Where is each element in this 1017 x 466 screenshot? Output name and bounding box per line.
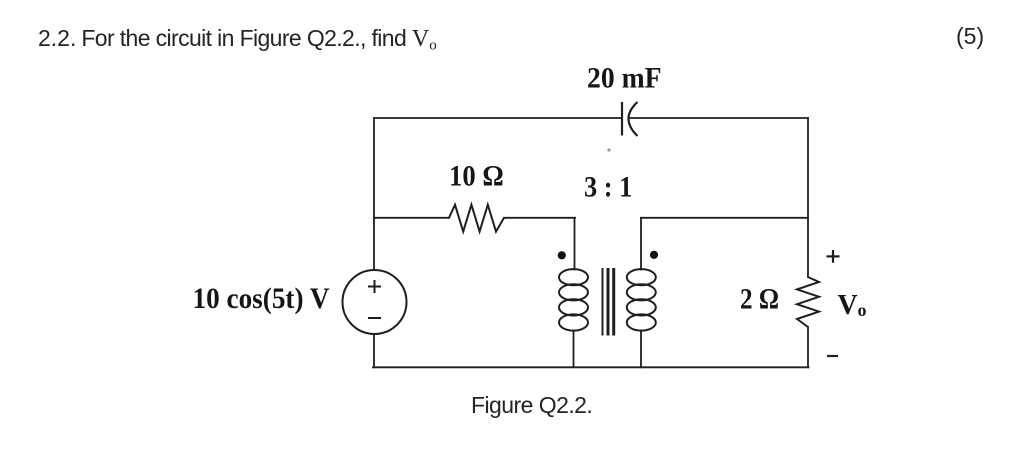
- wire secondary top vertical: [640, 218, 642, 270]
- svg-text:10 Ω: 10 Ω: [449, 160, 504, 193]
- wire left vertical lower: [373, 334, 375, 367]
- resistor R2 2 ohm vertical zigzag: [797, 277, 819, 327]
- voltage source minus sign: [368, 317, 381, 319]
- faint scan speck: [607, 148, 610, 151]
- dot secondary polarity: [650, 251, 658, 259]
- voltage source VS circle: [343, 270, 407, 334]
- problem statement text: [38, 25, 437, 59]
- svg-text:V: V: [838, 290, 858, 321]
- wire right vertical upper: [807, 118, 809, 277]
- inductor L2 secondary coil: [627, 269, 656, 331]
- svg-text:2 Ω: 2 Ω: [740, 282, 779, 315]
- wire top-right horizontal: [629, 117, 808, 119]
- wire bottom horizontal: [373, 366, 809, 368]
- dot primary polarity: [558, 251, 566, 259]
- transformer core bars: [603, 268, 614, 336]
- minus sign output: [827, 355, 838, 357]
- wire top-left horizontal: [374, 117, 622, 119]
- plus sign output: [827, 250, 840, 263]
- wire primary top vertical: [574, 218, 576, 270]
- svg-text:20 mF: 20 mF: [587, 62, 662, 95]
- svg-text:10 cos(5t) V: 10 cos(5t) V: [193, 282, 330, 315]
- svg-text:o: o: [858, 300, 867, 320]
- marks (5): [956, 23, 984, 50]
- capacitor C1 curved plate: [629, 102, 638, 136]
- wire secondary bottom vertical: [640, 331, 642, 368]
- wire resistor R1 to primary: [504, 217, 575, 219]
- resistor 10 ohm zigzag: [449, 205, 504, 232]
- svg-text:3 : 1: 3 : 1: [584, 171, 632, 204]
- wire left vertical upper: [373, 118, 375, 270]
- wire right vertical lower: [807, 327, 809, 367]
- wire middle-right horizontal: [641, 217, 808, 219]
- capacitor C1 left plate: [621, 102, 623, 136]
- figure caption: [471, 392, 592, 419]
- inductor L1 primary coil: [559, 269, 588, 331]
- wire middle-left horizontal: [374, 217, 449, 219]
- voltage source plus sign: [368, 280, 381, 293]
- wire primary bottom vertical: [573, 331, 575, 368]
